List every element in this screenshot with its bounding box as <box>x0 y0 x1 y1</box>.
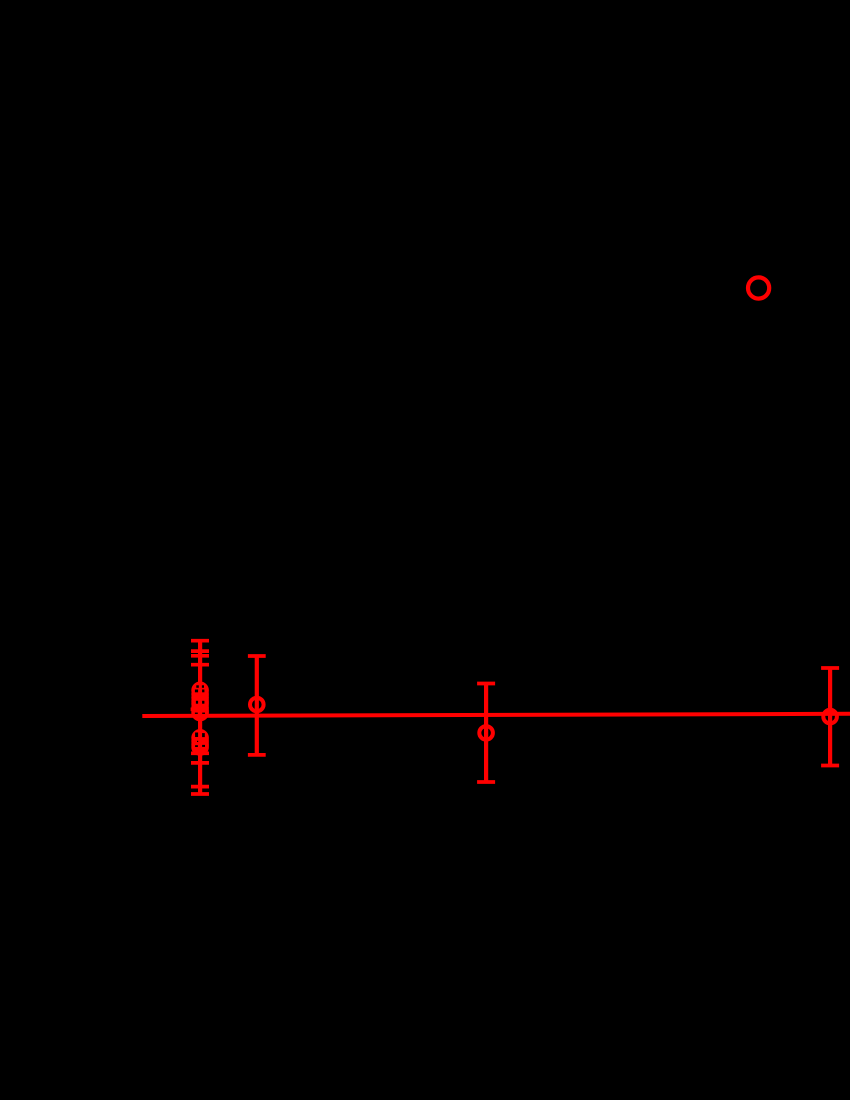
cluster circle interior holes <box>195 685 205 747</box>
data point 2 error bar <box>248 656 266 755</box>
fit line <box>142 714 850 716</box>
cluster cap bottom 2 <box>191 761 209 765</box>
cluster cap top 2 <box>191 649 209 653</box>
data point 2 circle <box>250 698 264 712</box>
cluster data circles <box>193 684 207 754</box>
cluster cap bottom 3 <box>191 785 209 789</box>
data point 4 error bar <box>821 668 839 766</box>
cluster cap bottom 1 <box>191 751 209 755</box>
cluster cap top 1 <box>191 639 209 643</box>
legend point symbol <box>748 277 769 298</box>
cluster error bar vertical line <box>198 641 202 794</box>
data point 3 error bar <box>477 684 495 783</box>
cluster cap bottom 4 <box>191 792 209 796</box>
data point 3 circle <box>479 726 493 740</box>
cluster cap top 3 <box>191 654 209 658</box>
cluster cap top 4 <box>191 663 209 667</box>
data point 4 circle <box>823 710 837 724</box>
cluster cap mid <box>191 707 207 711</box>
